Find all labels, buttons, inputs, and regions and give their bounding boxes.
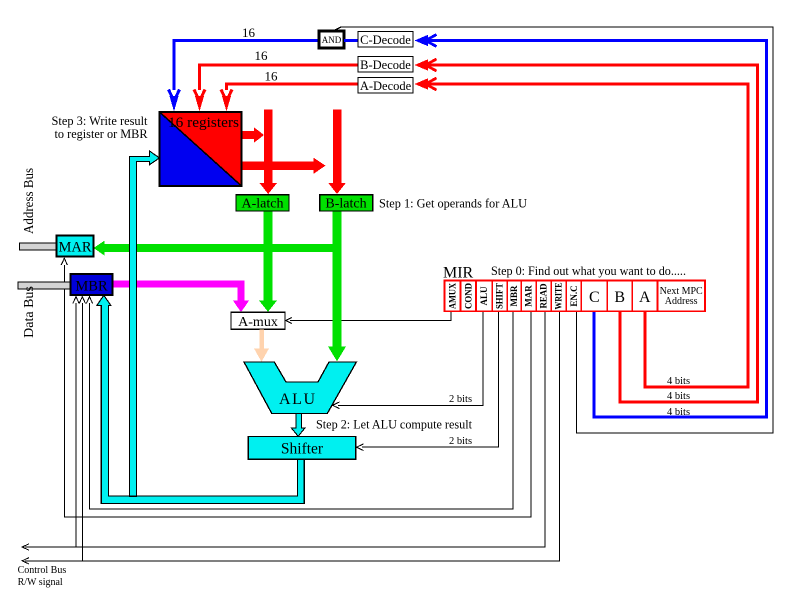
AND gate — [319, 31, 344, 48]
svg-text:WRITE: WRITE — [554, 283, 564, 310]
C-Decode box — [358, 32, 413, 48]
wire B-Decode to registers (red, down chevron) — [200, 65, 359, 90]
svg-text:Address Bus: Address Bus — [22, 168, 37, 234]
MIR register fields — [445, 281, 706, 312]
wire C field to C-Decode (blue loop) — [428, 41, 767, 418]
green arrowhead into MAR — [94, 241, 105, 256]
MIR field A cell — [632, 281, 657, 312]
svg-text:2 bits: 2 bits — [449, 436, 472, 447]
svg-text:READ: READ — [539, 283, 549, 308]
svg-text:Shifter: Shifter — [281, 441, 324, 458]
svg-text:C: C — [589, 289, 600, 306]
magenta wire MBR to A-mux — [112, 281, 244, 288]
svg-text:MBR: MBR — [75, 279, 108, 295]
red arrow registers to A bus — [242, 131, 255, 139]
svg-text:ALU: ALU — [479, 286, 489, 306]
16 registers box — [160, 112, 242, 186]
MIR field READ cell — [536, 281, 551, 312]
ALU — [244, 362, 356, 414]
A-latch box — [236, 195, 289, 211]
arrowhead into C-Decode (blue double chevron) — [415, 35, 437, 47]
thin wire SHIFT field to Shifter — [362, 311, 499, 447]
green B vertical (B-latch to ALU) — [333, 211, 342, 348]
wire EN.C loop (black thin from EN.C field to AND gate) — [333, 27, 773, 433]
green A vertical (A-latch to A-mux) — [264, 211, 273, 302]
Shifter box — [248, 437, 355, 460]
svg-text:4 bits: 4 bits — [667, 391, 690, 402]
thin wire MBR field to MBR — [90, 303, 513, 509]
svg-text:COND: COND — [463, 283, 473, 309]
svg-text:AMUX: AMUX — [448, 283, 458, 309]
svg-text:R/W signal: R/W signal — [18, 577, 63, 588]
MAR box — [57, 235, 94, 256]
svg-text:B: B — [614, 289, 625, 306]
MIR field Next-MPC-Address cell — [657, 281, 705, 312]
thin wire WRITE field to control bus — [25, 311, 560, 561]
MIR field MAR cell — [521, 281, 536, 312]
svg-text:SHIFT: SHIFT — [495, 283, 505, 309]
svg-text:4 bits: 4 bits — [667, 407, 690, 418]
svg-text:B-latch: B-latch — [325, 197, 366, 212]
svg-text:2 bits: 2 bits — [449, 394, 472, 405]
svg-text:A: A — [639, 289, 651, 306]
svg-text:A-mux: A-mux — [238, 315, 278, 330]
wire AND gate to 16 registers (blue, with down chevron arrow) — [174, 41, 319, 91]
svg-text:Address: Address — [665, 296, 698, 307]
svg-text:4 bits: 4 bits — [667, 376, 690, 387]
svg-text:MAR: MAR — [58, 240, 91, 256]
svg-text:Step 1: Get operands for ALU: Step 1: Get operands for ALU — [379, 196, 528, 211]
svg-text:16: 16 — [265, 69, 279, 84]
B-Decode box — [358, 57, 413, 73]
MIR field MBR cell — [507, 281, 521, 312]
wire B field to B-Decode (red loop) — [428, 65, 758, 402]
cyan arrow ALU to Shifter — [291, 414, 305, 437]
MIR field COND cell — [461, 281, 477, 312]
cyan loop: Shifter to MBR (pipe + bottom bar + up arrow) — [97, 295, 304, 503]
Address Bus gray bar — [20, 243, 57, 250]
svg-text:Data Bus: Data Bus — [22, 286, 37, 338]
svg-text:to register or MBR: to register or MBR — [55, 126, 148, 141]
svg-text:A-Decode: A-Decode — [360, 79, 412, 93]
cyan bus: bar to registers (vertical + arrow) — [129, 151, 159, 496]
A-Decode box — [358, 78, 413, 94]
arrowhead into A-Decode (red double chevron) — [415, 78, 437, 90]
svg-text:ALU: ALU — [279, 391, 315, 408]
thin wire READ field to control bus — [25, 311, 545, 547]
svg-text:MAR: MAR — [524, 285, 534, 307]
svg-text:16 registers: 16 registers — [168, 115, 239, 131]
green arrowhead into ALU — [328, 347, 346, 362]
svg-text:Step 0: Find out what you want: Step 0: Find out what you want to do....… — [491, 263, 686, 278]
arrowhead into B-Decode (red double chevron) — [415, 59, 437, 71]
MIR field SHIFT cell — [492, 281, 507, 312]
Data Bus gray bar — [18, 282, 71, 289]
MBR box — [71, 274, 113, 295]
wire AND to C-Decode (blue) — [344, 39, 358, 42]
magenta arrowhead into A-mux — [233, 301, 249, 313]
svg-text:16: 16 — [242, 25, 256, 40]
svg-text:A-latch: A-latch — [242, 197, 284, 212]
svg-text:MBR: MBR — [509, 285, 519, 306]
red arrow registers to B bus — [242, 162, 314, 170]
svg-text:MIR: MIR — [443, 265, 474, 282]
green arrowhead into A-mux — [259, 301, 277, 312]
MIR field WRITE cell — [551, 281, 566, 312]
thin wire WRITE branch to MBR — [81, 303, 83, 561]
svg-text:16: 16 — [255, 48, 269, 63]
svg-text:B-Decode: B-Decode — [360, 58, 411, 72]
svg-text:Step 2: Let ALU compute result: Step 2: Let ALU compute result — [316, 417, 472, 432]
peach wire A-mux to ALU — [259, 329, 264, 349]
thin wire READ branch to MBR — [75, 303, 77, 547]
MIR field B cell — [607, 281, 632, 312]
thin wire MAR field to MAR — [64, 265, 531, 517]
MIR field EN.C cell — [566, 281, 581, 312]
red B bus vertical with arrow into B-latch — [333, 110, 342, 185]
MIR field C cell — [581, 281, 607, 312]
MIR field labels (rotated) — [448, 283, 579, 310]
wire A-Decode to registers (red, down chevron) — [227, 84, 359, 90]
svg-text:EN.C: EN.C — [569, 285, 579, 306]
svg-text:C-Decode: C-Decode — [360, 33, 411, 47]
wire A field to A-Decode (red loop) — [428, 84, 748, 387]
MIR field ALU cell — [476, 281, 492, 312]
B-latch box — [320, 195, 373, 211]
red A bus vertical with arrow into A-latch — [264, 110, 273, 185]
thin wire AMUX field to A-mux — [290, 311, 451, 321]
thin wire ALU field to ALU — [338, 311, 483, 405]
svg-text:AND: AND — [322, 35, 342, 45]
A-mux box — [231, 312, 285, 329]
MIR field AMUX cell — [445, 281, 461, 312]
green C-bus horizontal into MAR — [104, 244, 342, 252]
svg-text:Control Bus: Control Bus — [18, 565, 67, 576]
